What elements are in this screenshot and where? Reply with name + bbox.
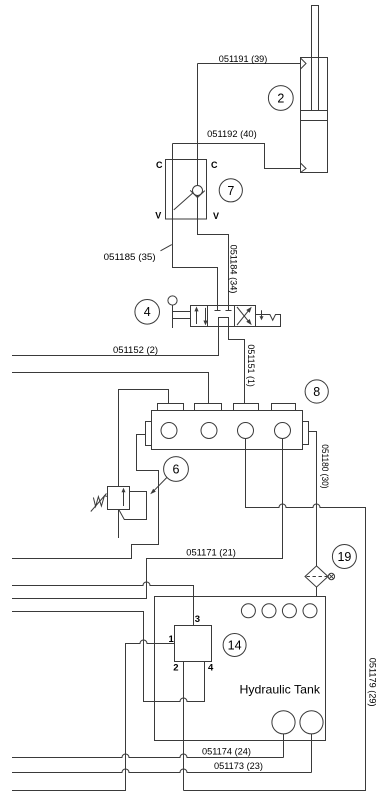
svg-text:051173 (23): 051173 (23) [214, 761, 263, 771]
svg-text:3: 3 [195, 614, 200, 625]
svg-text:051151 (1): 051151 (1) [246, 344, 256, 387]
svg-text:7: 7 [227, 184, 234, 198]
svg-text:051184 (34): 051184 (34) [229, 245, 239, 294]
svg-text:2: 2 [277, 92, 284, 106]
svg-text:051171 (21): 051171 (21) [186, 548, 236, 558]
svg-text:C: C [211, 160, 218, 170]
svg-text:2: 2 [173, 663, 178, 674]
svg-text:V: V [213, 211, 219, 221]
svg-text:4: 4 [208, 663, 214, 674]
svg-text:051185 (35): 051185 (35) [104, 252, 156, 262]
svg-text:1: 1 [169, 634, 175, 645]
svg-text:19: 19 [337, 550, 351, 564]
svg-text:051192 (40): 051192 (40) [207, 129, 257, 139]
svg-text:6: 6 [173, 463, 180, 477]
svg-text:C: C [156, 160, 163, 170]
svg-text:051152 (2): 051152 (2) [113, 345, 158, 355]
svg-text:Hydraulic Tank: Hydraulic Tank [240, 682, 322, 696]
svg-text:051180 (30): 051180 (30) [320, 444, 330, 488]
svg-text:V: V [155, 210, 161, 220]
svg-text:051191 (39): 051191 (39) [219, 54, 268, 64]
svg-text:14: 14 [228, 639, 242, 653]
svg-text:8: 8 [313, 385, 320, 399]
svg-text:051174 (24): 051174 (24) [202, 747, 251, 757]
svg-text:051179 (29): 051179 (29) [367, 658, 377, 707]
svg-text:4: 4 [144, 305, 151, 319]
